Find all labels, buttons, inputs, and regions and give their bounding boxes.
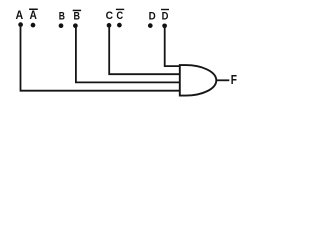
terminal dot A — [18, 22, 23, 27]
terminal dot C-bar — [117, 23, 122, 28]
AND gate U1 — [180, 65, 217, 96]
svg-text:C: C — [106, 10, 113, 22]
terminal dot A-bar — [31, 23, 36, 28]
terminal dot C — [107, 23, 112, 28]
label D-bar — [161, 9, 169, 22]
terminal dot B-bar — [73, 23, 78, 28]
svg-text:C: C — [116, 10, 123, 22]
terminal dot D-bar — [162, 23, 167, 28]
terminal dot B — [59, 23, 64, 28]
output wire F — [216, 79, 229, 81]
wire B-bar to gate input 3 — [76, 26, 180, 82]
label A-bar — [29, 8, 38, 22]
label B-bar — [73, 10, 81, 23]
svg-text:D: D — [149, 10, 156, 22]
svg-text:A: A — [15, 8, 23, 22]
terminal dot D — [148, 23, 153, 28]
svg-text:A: A — [30, 8, 38, 22]
wire C to gate input 2 — [109, 26, 180, 74]
wire D-bar to gate input 1 — [165, 26, 180, 66]
svg-text:D: D — [162, 10, 169, 22]
label C-bar — [116, 9, 124, 22]
svg-text:F: F — [231, 72, 237, 87]
svg-text:B: B — [59, 10, 65, 22]
wire A to gate input 4 — [21, 25, 180, 91]
svg-text:B: B — [74, 10, 81, 22]
